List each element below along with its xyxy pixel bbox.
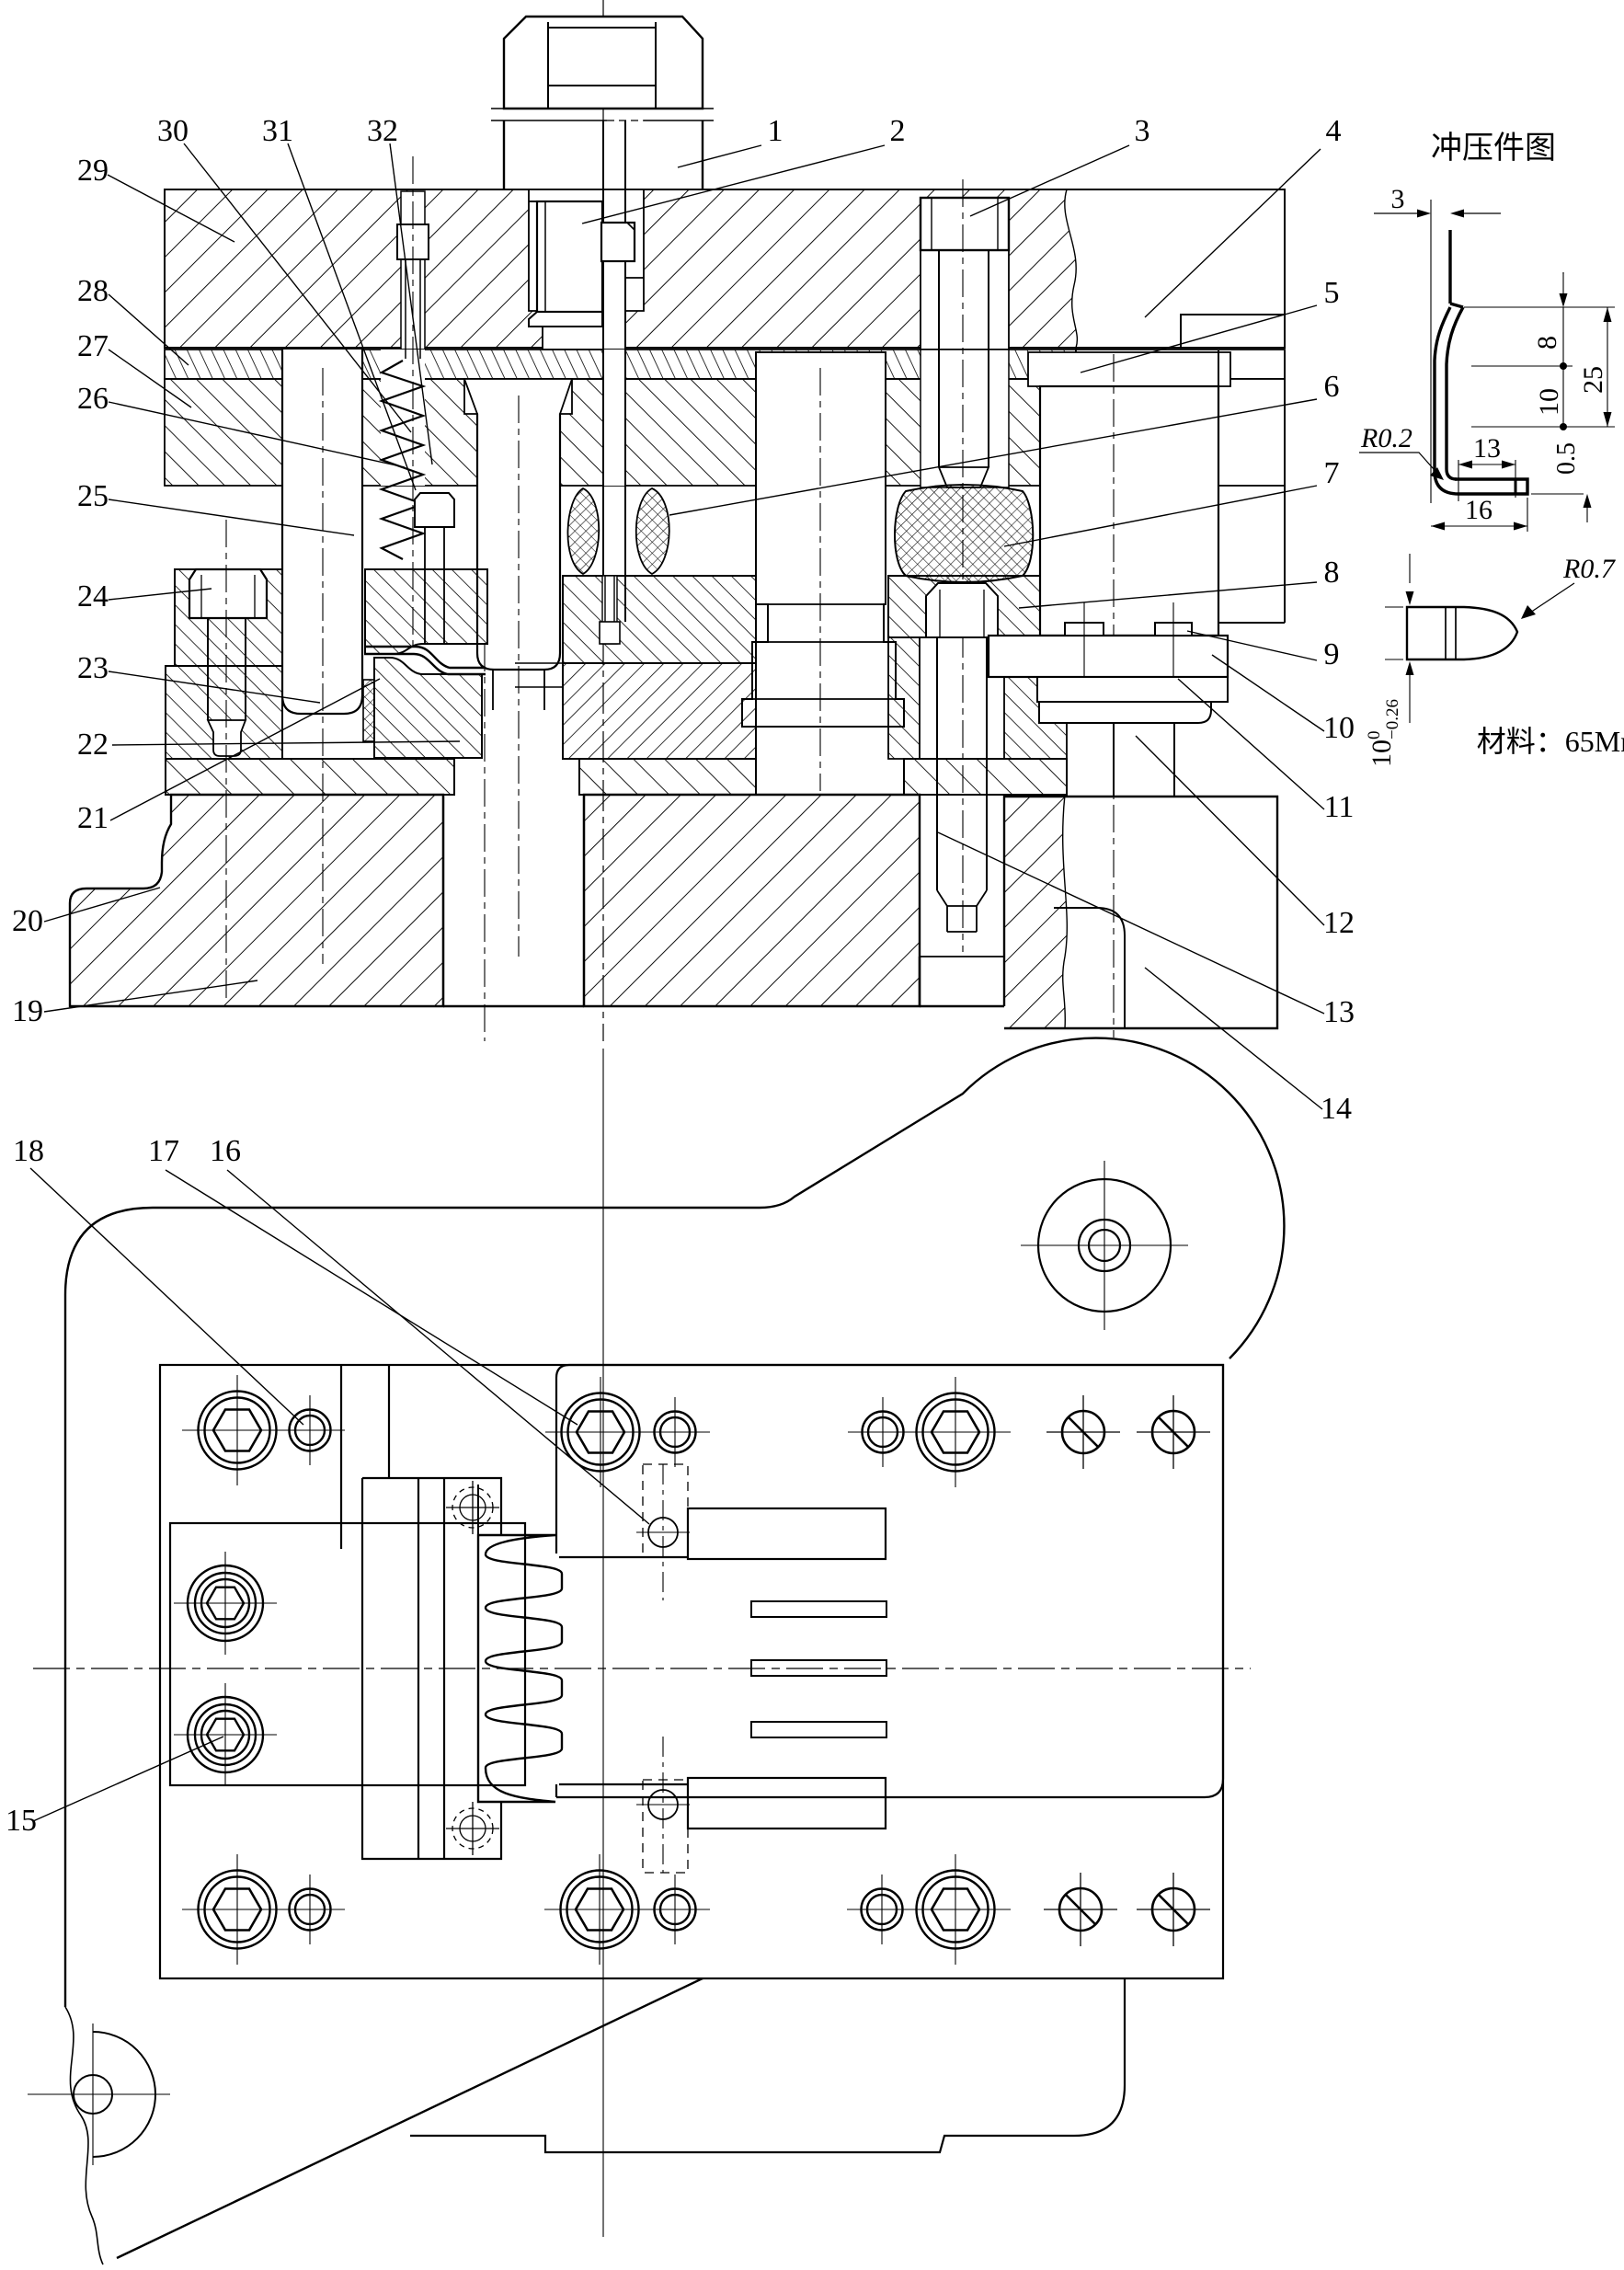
hex socket cap screw at (653,1557) bbox=[545, 1377, 656, 1487]
svg-text:0: 0 bbox=[1365, 731, 1384, 740]
hex socket cap screw at (258,1555) bbox=[182, 1375, 292, 1485]
extension line left surface bbox=[1430, 200, 1432, 503]
screw 3 counterbore bbox=[921, 198, 1009, 350]
label 11 bbox=[1178, 679, 1324, 809]
label 15 bbox=[33, 1737, 223, 1821]
slot 3 bbox=[751, 1722, 886, 1737]
die area right of bolt bbox=[888, 637, 920, 759]
label 18 bbox=[30, 1168, 303, 1425]
lower backing plate band bbox=[166, 759, 454, 795]
guide gib crosshatch strip bbox=[363, 680, 374, 741]
centre punch flange hole bbox=[464, 379, 572, 486]
svg-text:29: 29 bbox=[77, 154, 109, 188]
label 17 bbox=[166, 1170, 578, 1425]
pin 32 lower head bbox=[415, 493, 454, 527]
svg-text:14: 14 bbox=[1321, 1092, 1352, 1126]
svg-text:−0.26: −0.26 bbox=[1383, 699, 1402, 739]
slug hole centerline bbox=[484, 644, 486, 1041]
hex socket cap screw at (652,2076) bbox=[544, 1854, 655, 1965]
right plate notch bbox=[556, 1378, 688, 1557]
main lower plate bbox=[160, 1365, 1223, 1978]
label 10 bbox=[1212, 655, 1324, 731]
svg-text:10: 10 bbox=[1367, 739, 1397, 767]
label 12 bbox=[1136, 736, 1324, 925]
knockout pin in die bbox=[605, 576, 614, 622]
part step at top of flange bbox=[1450, 304, 1463, 307]
label 24 bbox=[109, 589, 212, 600]
label 4 bbox=[1145, 149, 1321, 317]
spring cavity bbox=[381, 350, 425, 486]
label 27 bbox=[109, 350, 191, 407]
bent strip workpiece bbox=[364, 647, 486, 668]
svg-text:3: 3 bbox=[1391, 184, 1405, 214]
shoe diagonal edge bbox=[117, 1978, 703, 2258]
shoulder bushing screw at (245,1743) bbox=[174, 1552, 277, 1655]
pin hole in die bbox=[602, 576, 617, 644]
slot 2 bbox=[751, 1660, 886, 1676]
svg-text:32: 32 bbox=[367, 114, 398, 148]
label 20 bbox=[44, 888, 160, 922]
svg-text:8: 8 bbox=[1324, 556, 1340, 590]
guide pillar right bbox=[1218, 350, 1285, 623]
slot 1 bbox=[751, 1601, 886, 1617]
hex socket cap screw at (1039,1557) bbox=[900, 1377, 1011, 1487]
spring part 31 bbox=[382, 361, 423, 559]
left stripper top block part 25 bbox=[175, 569, 282, 666]
svg-text:1: 1 bbox=[768, 114, 783, 148]
label14 target corner bbox=[442, 795, 444, 1006]
upper blank holder plate bbox=[556, 1365, 1223, 1797]
svg-text:2: 2 bbox=[890, 114, 906, 148]
svg-text:21: 21 bbox=[77, 801, 109, 835]
side rail tab top bbox=[688, 1508, 886, 1559]
svg-text:13: 13 bbox=[1473, 433, 1501, 464]
label 14 bbox=[1145, 968, 1322, 1109]
position marker bottom bbox=[446, 1802, 499, 1855]
label 5 bbox=[1081, 305, 1317, 373]
upper die shoe part 29/30 hatched bbox=[165, 189, 1077, 348]
part 9 side rail bbox=[989, 636, 1228, 677]
dim 16 bbox=[1527, 498, 1528, 532]
part 8 block bbox=[888, 576, 1040, 637]
svg-text:17: 17 bbox=[148, 1134, 179, 1168]
svg-text:22: 22 bbox=[77, 728, 109, 762]
hex socket cap screw at (1039,2076) bbox=[900, 1854, 1011, 1965]
dashed hidden rect bottom bbox=[643, 1780, 688, 1873]
o-ring right lens bbox=[636, 488, 669, 574]
dim line 25 bbox=[1607, 307, 1608, 427]
part 10 plate bbox=[1037, 677, 1228, 702]
svg-text:25: 25 bbox=[77, 479, 109, 513]
die shank part 1 hex head bbox=[504, 17, 703, 109]
label 16 bbox=[227, 1170, 649, 1524]
die shank body bbox=[504, 120, 703, 189]
left sub-plate bbox=[170, 1523, 525, 1785]
rod hole bbox=[604, 350, 624, 486]
svg-text:3: 3 bbox=[1135, 114, 1150, 148]
svg-text:5: 5 bbox=[1324, 276, 1340, 310]
part S-bend outer bbox=[1435, 307, 1527, 494]
svg-text:R0.7: R0.7 bbox=[1562, 554, 1617, 584]
dashed hidden rect top bbox=[643, 1464, 688, 1557]
svg-text:R0.2: R0.2 bbox=[1360, 423, 1412, 453]
svg-text:20: 20 bbox=[12, 904, 43, 938]
screw3 shank channel bbox=[921, 350, 1009, 487]
part top wall bbox=[1448, 230, 1451, 304]
shoulder bushing screw at (245,1886) bbox=[174, 1683, 277, 1786]
svg-text:30: 30 bbox=[157, 114, 189, 148]
svg-text:23: 23 bbox=[77, 651, 109, 685]
svg-text:13: 13 bbox=[1323, 995, 1355, 1029]
svg-text:31: 31 bbox=[262, 114, 293, 148]
centre punch part 5 body bbox=[464, 379, 572, 414]
shank hole in shoe bbox=[529, 189, 644, 350]
shoe right step notch bbox=[1181, 315, 1285, 348]
centerline main bbox=[602, 0, 604, 1041]
bend die block bbox=[374, 658, 482, 758]
dowel pin at (734,1557) bbox=[640, 1397, 710, 1467]
label 22 bbox=[112, 741, 460, 745]
blank holder column part 5 right bbox=[1040, 386, 1218, 636]
threaded hole at (1276,1557) bbox=[1137, 1395, 1210, 1469]
svg-text:25: 25 bbox=[1578, 366, 1608, 394]
svg-text:15: 15 bbox=[6, 1804, 37, 1838]
rubber buffer part 7 bbox=[895, 485, 1033, 582]
hex socket cap screw at (258,2076) bbox=[182, 1854, 292, 1965]
die block part 22 lower bbox=[563, 663, 756, 759]
right column flange hole bbox=[1028, 352, 1230, 486]
label 28 bbox=[109, 294, 189, 365]
discharge bolt part 13 shank bbox=[937, 637, 987, 890]
knock-out rod part 2 bbox=[603, 120, 625, 622]
screw 3 bbox=[921, 198, 1009, 250]
extension lines right bbox=[1464, 306, 1615, 308]
label 29 bbox=[108, 175, 234, 242]
svg-text:6: 6 bbox=[1324, 370, 1340, 404]
upper die shoe outline bbox=[165, 189, 1285, 348]
projection line from section bbox=[602, 1049, 604, 2237]
stripper plate part 23 bbox=[166, 666, 282, 759]
guide punch channel (left column) bbox=[282, 350, 362, 486]
bottom-left bushing arc bbox=[93, 2032, 155, 2157]
ejector block middle bbox=[742, 352, 904, 727]
plan horizontal centerline bbox=[33, 1668, 1251, 1669]
flange end step bbox=[1515, 479, 1517, 494]
svg-text:7: 7 bbox=[1324, 456, 1340, 490]
left inner verticals bbox=[340, 1365, 342, 1549]
label 30 bbox=[184, 143, 411, 432]
svg-text:19: 19 bbox=[12, 994, 43, 1028]
pin body bbox=[1407, 607, 1517, 659]
dim 13 bbox=[1458, 460, 1459, 501]
guide punch (left big column) part 26 bbox=[282, 350, 362, 714]
die block part 22 upper bbox=[563, 576, 756, 663]
sleeve in shank hole bbox=[537, 201, 602, 312]
comb formed strip bbox=[478, 1535, 562, 1802]
svg-text:16: 16 bbox=[210, 1134, 241, 1168]
lower shoe right unsectioned part bbox=[1004, 797, 1277, 1028]
label 31 bbox=[288, 143, 416, 490]
swing arm boss circles bbox=[1038, 1179, 1171, 1312]
dim 3 lines bbox=[1374, 212, 1425, 214]
punch holder plate part 27 bbox=[165, 379, 1076, 486]
svg-text:26: 26 bbox=[77, 382, 109, 416]
label 21 bbox=[110, 679, 380, 820]
svg-text:24: 24 bbox=[77, 579, 109, 613]
pilot hole top bbox=[648, 1518, 678, 1547]
svg-text:10: 10 bbox=[1534, 388, 1564, 416]
threaded hole at (1276,2076) bbox=[1137, 1873, 1210, 1946]
label 2 bbox=[582, 145, 885, 224]
part 12 stem bbox=[1114, 723, 1174, 797]
label 23 bbox=[109, 671, 320, 703]
svg-text:4: 4 bbox=[1326, 114, 1342, 148]
label 6 bbox=[669, 399, 1317, 515]
o-ring left lens bbox=[567, 488, 599, 574]
dim line 8/10 bbox=[1562, 272, 1564, 274]
dowel pin at (960,1557) bbox=[848, 1397, 918, 1467]
pilot hole bottom bbox=[648, 1790, 678, 1819]
thin backing plate part 28 bbox=[165, 350, 1076, 379]
label 13 bbox=[938, 832, 1324, 1014]
lower die shoe part 19 bbox=[70, 795, 443, 1006]
position marker top bbox=[446, 1481, 499, 1534]
svg-text:28: 28 bbox=[77, 274, 109, 308]
label 25 bbox=[109, 499, 354, 535]
svg-text:12: 12 bbox=[1323, 906, 1355, 940]
svg-text:16: 16 bbox=[1465, 495, 1492, 525]
svg-text:0.5: 0.5 bbox=[1552, 442, 1581, 475]
shoe bottom-right step outline bbox=[410, 1979, 1125, 2152]
stripper middle block bbox=[365, 569, 487, 654]
svg-text:材料：65Mn: 材料：65Mn bbox=[1477, 725, 1624, 758]
dowel pin at (734,2076) bbox=[640, 1874, 710, 1944]
side rail tab bottom bbox=[688, 1778, 886, 1829]
svg-text:9: 9 bbox=[1324, 637, 1340, 671]
die ledge lines bbox=[515, 662, 563, 664]
svg-text:27: 27 bbox=[77, 329, 109, 363]
label 1 bbox=[678, 145, 761, 167]
shoe partial-section wavy boundary bbox=[1065, 189, 1078, 348]
threaded hole at (1175,2076) bbox=[1044, 1873, 1117, 1946]
hex nut in part 8 bbox=[926, 583, 998, 637]
label 3 bbox=[970, 145, 1129, 216]
screw 24 bbox=[189, 569, 267, 618]
part S-bend inner bbox=[1447, 307, 1463, 479]
dowel pin at (337,1555) bbox=[275, 1395, 345, 1465]
svg-text:10: 10 bbox=[1323, 711, 1355, 745]
label 26 bbox=[109, 402, 405, 467]
svg-text:冲压件图: 冲压件图 bbox=[1431, 131, 1556, 166]
part 11 bar bbox=[1039, 702, 1211, 723]
dowel pin at (337,2076) bbox=[275, 1874, 345, 1944]
threaded hole at (1178,1557) bbox=[1046, 1395, 1120, 1469]
label 19 bbox=[44, 980, 257, 1012]
label 32 bbox=[390, 143, 432, 464]
label 9 bbox=[1187, 631, 1317, 660]
wavy break edge bottom-left bbox=[65, 2007, 103, 2264]
pin 32 upper channel bbox=[401, 191, 425, 350]
svg-text:8: 8 bbox=[1532, 336, 1562, 350]
pin 32 upper bbox=[397, 224, 429, 259]
label 7 bbox=[1004, 486, 1317, 546]
tall middle block bbox=[362, 1478, 501, 1859]
label 8 bbox=[1019, 582, 1317, 608]
svg-text:11: 11 bbox=[1324, 790, 1355, 824]
die shank break lines bbox=[491, 108, 714, 109]
dowel pin at (959,2076) bbox=[847, 1874, 917, 1944]
pin dim 10-0.26 bbox=[1385, 606, 1403, 608]
svg-text:18: 18 bbox=[13, 1134, 44, 1168]
lower shoe plan outline bbox=[65, 1038, 1284, 2007]
